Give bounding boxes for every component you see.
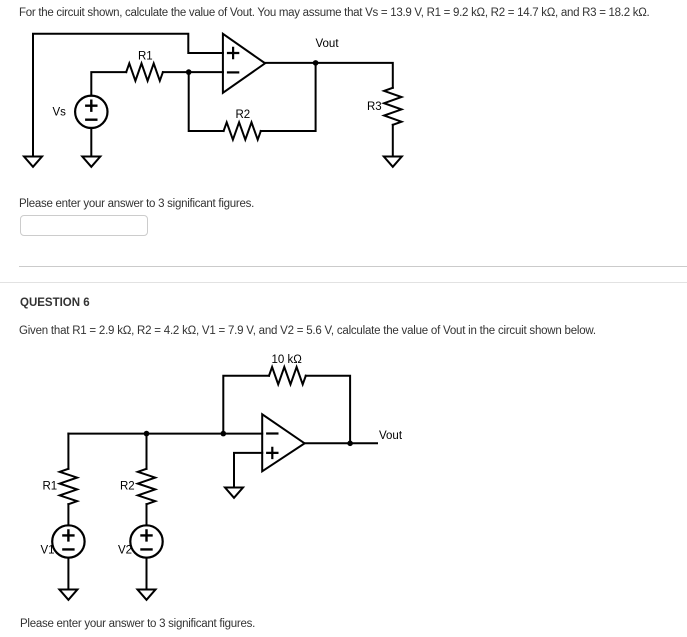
- source V2: [130, 525, 162, 557]
- circuit 2 schematic: [0, 345, 430, 610]
- source Vs: [75, 96, 107, 128]
- op-amp U1 + pin mark: [228, 48, 238, 58]
- wire: Vs top to R1: [91, 72, 126, 96]
- question 6 answer instruction: [20, 617, 255, 631]
- resistor R3: [384, 88, 401, 125]
- ground (V1): [59, 590, 77, 600]
- svg-text:V2: V2: [118, 545, 132, 557]
- wire: R2 to V2: [146, 504, 148, 525]
- source V1: [52, 525, 84, 557]
- op-amp U2: [262, 414, 304, 471]
- question 5 answer input box: [20, 215, 148, 236]
- wire: R3 bottom to ground: [392, 125, 394, 157]
- circuit 1 schematic: [0, 0, 440, 180]
- svg-text:Vs: Vs: [53, 107, 67, 119]
- wire: op-amp output to Vout: [305, 442, 377, 444]
- wire: R1 to V1: [67, 504, 69, 525]
- question 5 prompt text: [19, 6, 649, 20]
- svg-text:R3: R3: [367, 101, 382, 113]
- wire: Vs bottom to ground: [90, 128, 92, 157]
- op-amp U1: [223, 34, 265, 93]
- ground (op-amp + input): [225, 488, 243, 498]
- ground (Vs): [82, 157, 100, 167]
- wire: R1 to inverting input: [163, 71, 223, 73]
- svg-text:Vout: Vout: [316, 38, 340, 50]
- svg-text:R1: R1: [43, 481, 58, 493]
- ground (V2): [138, 590, 156, 600]
- question 6 prompt text: [19, 324, 596, 338]
- divider line (full width): [0, 282, 687, 283]
- op-amp U2 + pin mark: [267, 448, 277, 458]
- node: output junction: [347, 441, 353, 447]
- svg-text:Vout: Vout: [379, 430, 403, 442]
- wire: input rail to inverting input: [68, 433, 262, 435]
- wire: + input to ground: [234, 453, 262, 488]
- wire: feedback right down to output: [306, 376, 350, 444]
- svg-text:R2: R2: [120, 481, 135, 493]
- resistor R2: [138, 469, 155, 504]
- ground (R3): [384, 157, 402, 167]
- wire: feedback left riser: [223, 376, 269, 434]
- question 5 answer instruction: [19, 197, 254, 211]
- QUESTION 6 heading: [20, 296, 90, 310]
- resistor R2: [224, 122, 261, 139]
- wire: R2 to output node: [261, 63, 316, 131]
- wire: op-amp output to R3 top: [265, 63, 393, 88]
- svg-text:10 kΩ: 10 kΩ: [272, 354, 303, 366]
- wire: feedback from inverting node down to R2: [189, 72, 224, 131]
- wire: V1 to ground: [67, 558, 69, 590]
- svg-text:V1: V1: [41, 545, 55, 557]
- node: inverting input junction: [186, 69, 192, 75]
- divider line (question separator): [19, 266, 687, 267]
- node: output junction: [313, 60, 319, 66]
- resistor R1: [126, 63, 163, 80]
- wire: rail left end down to R1: [67, 434, 69, 469]
- wire: rail to R2: [146, 434, 148, 469]
- op-amp U2 - pin mark: [267, 432, 277, 434]
- wire: V2 to ground: [146, 558, 148, 590]
- svg-text:R1: R1: [138, 51, 153, 63]
- resistor R1: [60, 469, 77, 504]
- svg-text:R2: R2: [236, 109, 251, 121]
- resistor 10k feedback: [269, 367, 306, 384]
- wire: + input to top rail to left ground: [33, 34, 223, 157]
- node: inverting input junction: [221, 431, 227, 437]
- ground (left, + input reference): [24, 157, 42, 167]
- op-amp U1 - pin mark: [228, 71, 238, 73]
- node: rail junction at R2 branch: [144, 431, 150, 437]
